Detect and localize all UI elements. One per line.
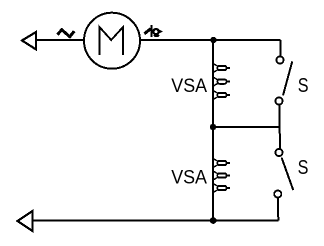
svg-text:S: S (298, 156, 309, 179)
svg-text:S: S (298, 74, 309, 97)
svg-text:VSA: VSA (171, 168, 207, 189)
svg-text:VSA: VSA (171, 76, 207, 97)
